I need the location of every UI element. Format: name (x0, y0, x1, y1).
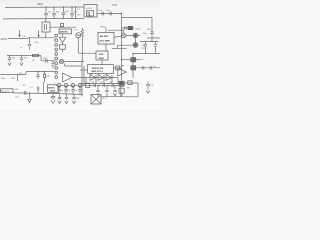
svg-text:x: x (54, 82, 55, 84)
ground (58, 101, 62, 104)
series capacitor C31 (112, 84, 114, 88)
ground (113, 93, 117, 96)
svg-text:10μ: 10μ (60, 90, 63, 92)
resistor R1 vertical (81, 28, 84, 39)
pin circle P3 (71, 83, 75, 87)
wire U5 left (80, 69, 88, 71)
pin circle P4 (78, 83, 82, 87)
capacitor C17 (51, 61, 54, 68)
transistor Q2 (133, 33, 138, 38)
svg-text:47μ: 47μ (67, 90, 70, 92)
svg-text:4-4.5V: 4-4.5V (85, 8, 92, 10)
capacitor C19 (24, 91, 26, 95)
step rail (0, 72, 55, 75)
capacitor C35 (146, 82, 150, 90)
wire Q1-Q2 (126, 34, 141, 36)
wire second rail (3, 18, 84, 20)
rail y53 (133, 53, 160, 55)
transistor Q3 (133, 43, 138, 48)
svg-text:SW: SW (127, 88, 130, 90)
capacitor C15 (20, 56, 23, 62)
wire input (8, 38, 28, 40)
node dot (52, 60, 53, 61)
svg-text:AM IN: AM IN (0, 38, 7, 41)
ground (27, 99, 31, 102)
wire osc down (78, 38, 96, 54)
svg-text:TRAP: TRAP (98, 57, 104, 60)
electrolytic E1 (131, 58, 136, 62)
svg-text:+25V: +25V (146, 29, 151, 31)
capacitor C6 (110, 12, 112, 16)
wire stub y38 (147, 37, 160, 39)
IC U3 detector (98, 32, 114, 44)
BOTTOMMIDDLE (56, 82, 122, 104)
svg-text:x: x (46, 82, 47, 84)
main bottom rail (13, 93, 83, 95)
capacitor C28 (72, 94, 75, 100)
capacitor C12 (142, 66, 144, 69)
wire R1 down (81, 39, 83, 97)
svg-text:4.5M: 4.5M (99, 53, 104, 56)
wire riser (43, 82, 45, 93)
capacitor C4 (70, 7, 74, 19)
wire tie (120, 85, 122, 96)
svg-text:AUDIO·PW: AUDIO·PW (92, 67, 104, 70)
svg-text:osc: osc (75, 29, 78, 31)
block K3 (60, 45, 66, 49)
wire Q1 top (108, 30, 124, 33)
BOTTOMRIGHT (119, 81, 153, 97)
ground (65, 101, 69, 104)
switch box S2 (119, 88, 124, 93)
wire U5 right (113, 67, 121, 69)
wire U4 bottom (101, 60, 103, 65)
capacitor C33 (105, 85, 108, 96)
svg-text:220μ: 220μ (1, 78, 6, 80)
RIGHTSIDE (118, 38, 160, 78)
ground (8, 63, 11, 66)
IC U2 455KHz (59, 29, 72, 34)
svg-text:MOT: MOT (102, 98, 107, 100)
node dot (61, 27, 62, 28)
svg-text:4.5V: 4.5V (112, 4, 117, 7)
pin circle P2 (64, 83, 68, 87)
svg-text:455KHz: 455KHz (60, 31, 69, 34)
svg-text:220Ω: 220Ω (37, 3, 43, 6)
capacitor C34 (113, 85, 116, 91)
wires diodes to U5 (91, 73, 107, 75)
capacitor C18 (36, 72, 39, 79)
switch box S1 (119, 81, 124, 86)
svg-text:xx: xx (20, 47, 22, 49)
triangle amp down (59, 34, 66, 43)
ground (72, 101, 76, 104)
capacitor C32 (96, 85, 99, 96)
RIGHTMIDDLE (108, 30, 141, 49)
MIDCENTER (80, 26, 122, 83)
svg-text:SP·OUT: SP·OUT (1, 91, 9, 93)
wire top rail (5, 6, 84, 8)
series capacitor C29 (94, 84, 96, 88)
rail y41 (140, 41, 159, 43)
arrow signal 1 (19, 30, 21, 35)
diode D3 (106, 75, 112, 80)
pin circles U2 (55, 34, 58, 37)
svg-text:104: 104 (91, 82, 94, 84)
ground (146, 90, 150, 93)
resistor R3 (44, 72, 46, 82)
svg-text:+16V: +16V (10, 78, 15, 80)
electrolytic E2 (131, 66, 136, 70)
svg-text:CERA: CERA (50, 90, 56, 93)
motor M1 (91, 95, 101, 104)
capacitor C16 (46, 59, 48, 63)
svg-text:AMP·BTL·x: AMP·BTL·x (91, 70, 104, 73)
wire E1 right (136, 59, 141, 61)
svg-text:LW: LW (23, 36, 26, 38)
IC U1 inner regulator (86, 11, 93, 16)
ICCOLUMN (50, 24, 96, 97)
capacitor C21 (51, 94, 55, 100)
lower rail (80, 83, 120, 85)
IC U1 box (84, 5, 97, 17)
op-amp A1 (63, 73, 72, 82)
capacitor C9 (28, 38, 32, 50)
wire tick (17, 75, 19, 82)
svg-text:AGC·AMP: AGC·AMP (99, 39, 110, 42)
wire mixer out (64, 61, 84, 63)
diode rail (80, 77, 118, 79)
svg-text:0.1μ: 0.1μ (98, 10, 102, 12)
svg-text:0.022: 0.022 (42, 58, 48, 60)
node dots (9, 55, 10, 56)
svg-text:470: 470 (22, 85, 25, 87)
wire tuned line (28, 37, 55, 39)
svg-text:47μ: 47μ (106, 10, 109, 12)
wire top-right corner (122, 18, 153, 32)
diode D2 (98, 75, 104, 80)
wire vertical x84 (83, 66, 85, 85)
wire to lower rail (41, 56, 55, 61)
pin row rail (56, 84, 120, 86)
component K1 (128, 26, 133, 29)
rail y55 (7, 55, 41, 57)
node dot (29, 37, 30, 38)
transformer T1 (42, 22, 50, 32)
wire E2 right (136, 67, 160, 69)
wire Q2 down (135, 38, 137, 43)
MIDLEFT (0, 30, 54, 49)
svg-text:480KHz: 480KHz (48, 86, 55, 89)
capacitor C11 (154, 42, 157, 54)
wire A1 out (72, 77, 80, 79)
capacitor C22 (57, 87, 60, 94)
node dots (37, 71, 38, 72)
label box speaker (1, 89, 14, 93)
wire loop (122, 83, 138, 97)
capacitor C20 (37, 87, 39, 94)
wire U1 output (97, 13, 122, 15)
node dot (121, 13, 122, 14)
capacitor C5 (102, 12, 104, 16)
wire down (29, 93, 31, 99)
wire E1 left (122, 59, 131, 61)
BOTTOMLEFT (1, 82, 84, 103)
TOPSECTION (3, 3, 154, 84)
IC U4 trap (96, 51, 108, 60)
transistor Q1 (121, 33, 126, 38)
node dots (99, 85, 100, 86)
component K2 (60, 24, 63, 27)
svg-text:0.022: 0.022 (135, 29, 141, 31)
pin circle P1 (57, 83, 61, 87)
capacitor C10 (144, 42, 147, 54)
capacitor C3 (62, 7, 66, 19)
bottom rail (101, 96, 122, 98)
capacitor C2 (52, 7, 56, 19)
svg-text:10μ: 10μ (65, 11, 68, 13)
capacitor C25 (78, 87, 81, 94)
wire ties (86, 78, 118, 84)
svg-text:10μ: 10μ (74, 90, 77, 92)
arrow signal 2 (38, 30, 40, 35)
capacitor C14 (8, 56, 11, 62)
component K5 (128, 81, 132, 85)
IC U5 audio amp (88, 65, 114, 74)
node dot (132, 53, 133, 54)
capacitor C26 (58, 94, 61, 100)
series capacitor C30 (103, 84, 105, 88)
resistor R4 (86, 83, 90, 87)
capacitor C1 (44, 7, 48, 19)
component K4 (116, 66, 120, 70)
wire U3 top (105, 28, 107, 33)
diode D1 (90, 75, 96, 80)
node dots top rail (45, 7, 46, 8)
wire divider x75 (75, 7, 77, 19)
capacitor C24 (71, 87, 74, 94)
wire Q3 left (112, 45, 133, 49)
wire U3 bottom (105, 44, 107, 51)
wire U3 to Q1 (114, 36, 121, 37)
svg-text:AM·DET: AM·DET (100, 35, 109, 38)
svg-text:IF455: IF455 (100, 26, 106, 28)
oscillator G1 (76, 33, 81, 38)
capacitor C27 (65, 94, 68, 100)
crystal X2 (48, 85, 58, 93)
ground (51, 100, 55, 103)
capacitor C13 (150, 66, 152, 69)
capacitor C23 (64, 87, 67, 94)
svg-text:10μ: 10μ (150, 85, 153, 87)
svg-text:1μ: 1μ (153, 66, 155, 68)
op-amp A2 (118, 68, 127, 76)
svg-text:473: 473 (100, 82, 103, 84)
capacitor C7 (150, 32, 154, 42)
wire right vertical bus (121, 14, 123, 84)
LEFTMIDDLE (0, 54, 55, 82)
node dot (29, 93, 30, 94)
wire branch (65, 63, 82, 66)
svg-text:104: 104 (109, 82, 112, 84)
wire y27 (50, 26, 76, 28)
capacitor C8 row (122, 26, 135, 29)
mixer X1 (59, 59, 63, 63)
wire vertical x133 (132, 54, 134, 78)
ground (20, 63, 23, 66)
resistor R2 (33, 54, 39, 56)
